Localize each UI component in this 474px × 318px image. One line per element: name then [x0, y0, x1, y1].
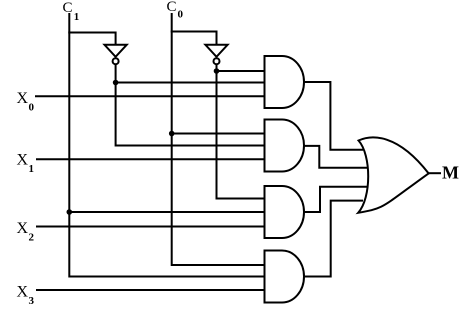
svg-text:X: X — [17, 151, 29, 168]
inverter U2 bubble — [214, 58, 220, 64]
wire AND3 output to OR — [303, 187, 366, 212]
or-gate U3 — [358, 137, 428, 212]
svg-text:1: 1 — [29, 163, 35, 175]
node: C0' to AND1 junction — [214, 68, 220, 74]
svg-text:C: C — [167, 0, 177, 15]
wire X2 input line — [37, 226, 265, 228]
wire AND1 output to OR — [303, 82, 362, 150]
node: C1' to AND1 junction — [113, 80, 119, 86]
wire C0 branch to inverter U2 — [172, 32, 217, 46]
svg-text:X: X — [17, 90, 29, 107]
wire C0' vertical from inverter U2 — [217, 65, 266, 199]
svg-text:0: 0 — [29, 102, 35, 114]
and-gate A1 — [265, 56, 305, 108]
wire C1 vertical trunk — [69, 14, 265, 277]
and-gate A4 — [265, 251, 305, 303]
wire X1 input line — [37, 158, 265, 160]
wire C1' to AND1 input — [116, 82, 265, 84]
svg-text:3: 3 — [29, 295, 35, 307]
and-gate A3 — [265, 186, 305, 238]
svg-text:0: 0 — [178, 9, 184, 21]
svg-text:C: C — [63, 0, 73, 16]
wire C0 vertical trunk — [172, 14, 265, 265]
inverter U2 triangle — [205, 45, 227, 57]
wire C1' vertical from inverter U1 — [116, 65, 265, 146]
svg-text:2: 2 — [29, 232, 35, 244]
wire C1 to AND3 input — [69, 211, 265, 213]
wire AND4 output to OR — [303, 201, 362, 277]
wire AND2 output to OR — [303, 146, 366, 168]
svg-text:X: X — [17, 284, 29, 301]
inverter U1 triangle — [105, 45, 127, 57]
wire X3 input line — [37, 289, 265, 291]
svg-text:1: 1 — [74, 11, 80, 23]
inverter U1 bubble — [113, 58, 119, 64]
wire C0' to AND1 input — [217, 70, 266, 72]
wire C1 branch to inverter U1 — [69, 33, 115, 46]
wire X0 input line — [36, 95, 265, 97]
node: C1 to AND3 junction — [67, 209, 73, 215]
wire C0 to AND2 input — [172, 133, 265, 135]
svg-text:X: X — [17, 220, 29, 237]
svg-text:M: M — [442, 163, 459, 183]
and-gate A2 — [265, 120, 305, 172]
wire OR output to M — [428, 172, 440, 174]
node: C0 to AND2 junction — [169, 131, 175, 137]
